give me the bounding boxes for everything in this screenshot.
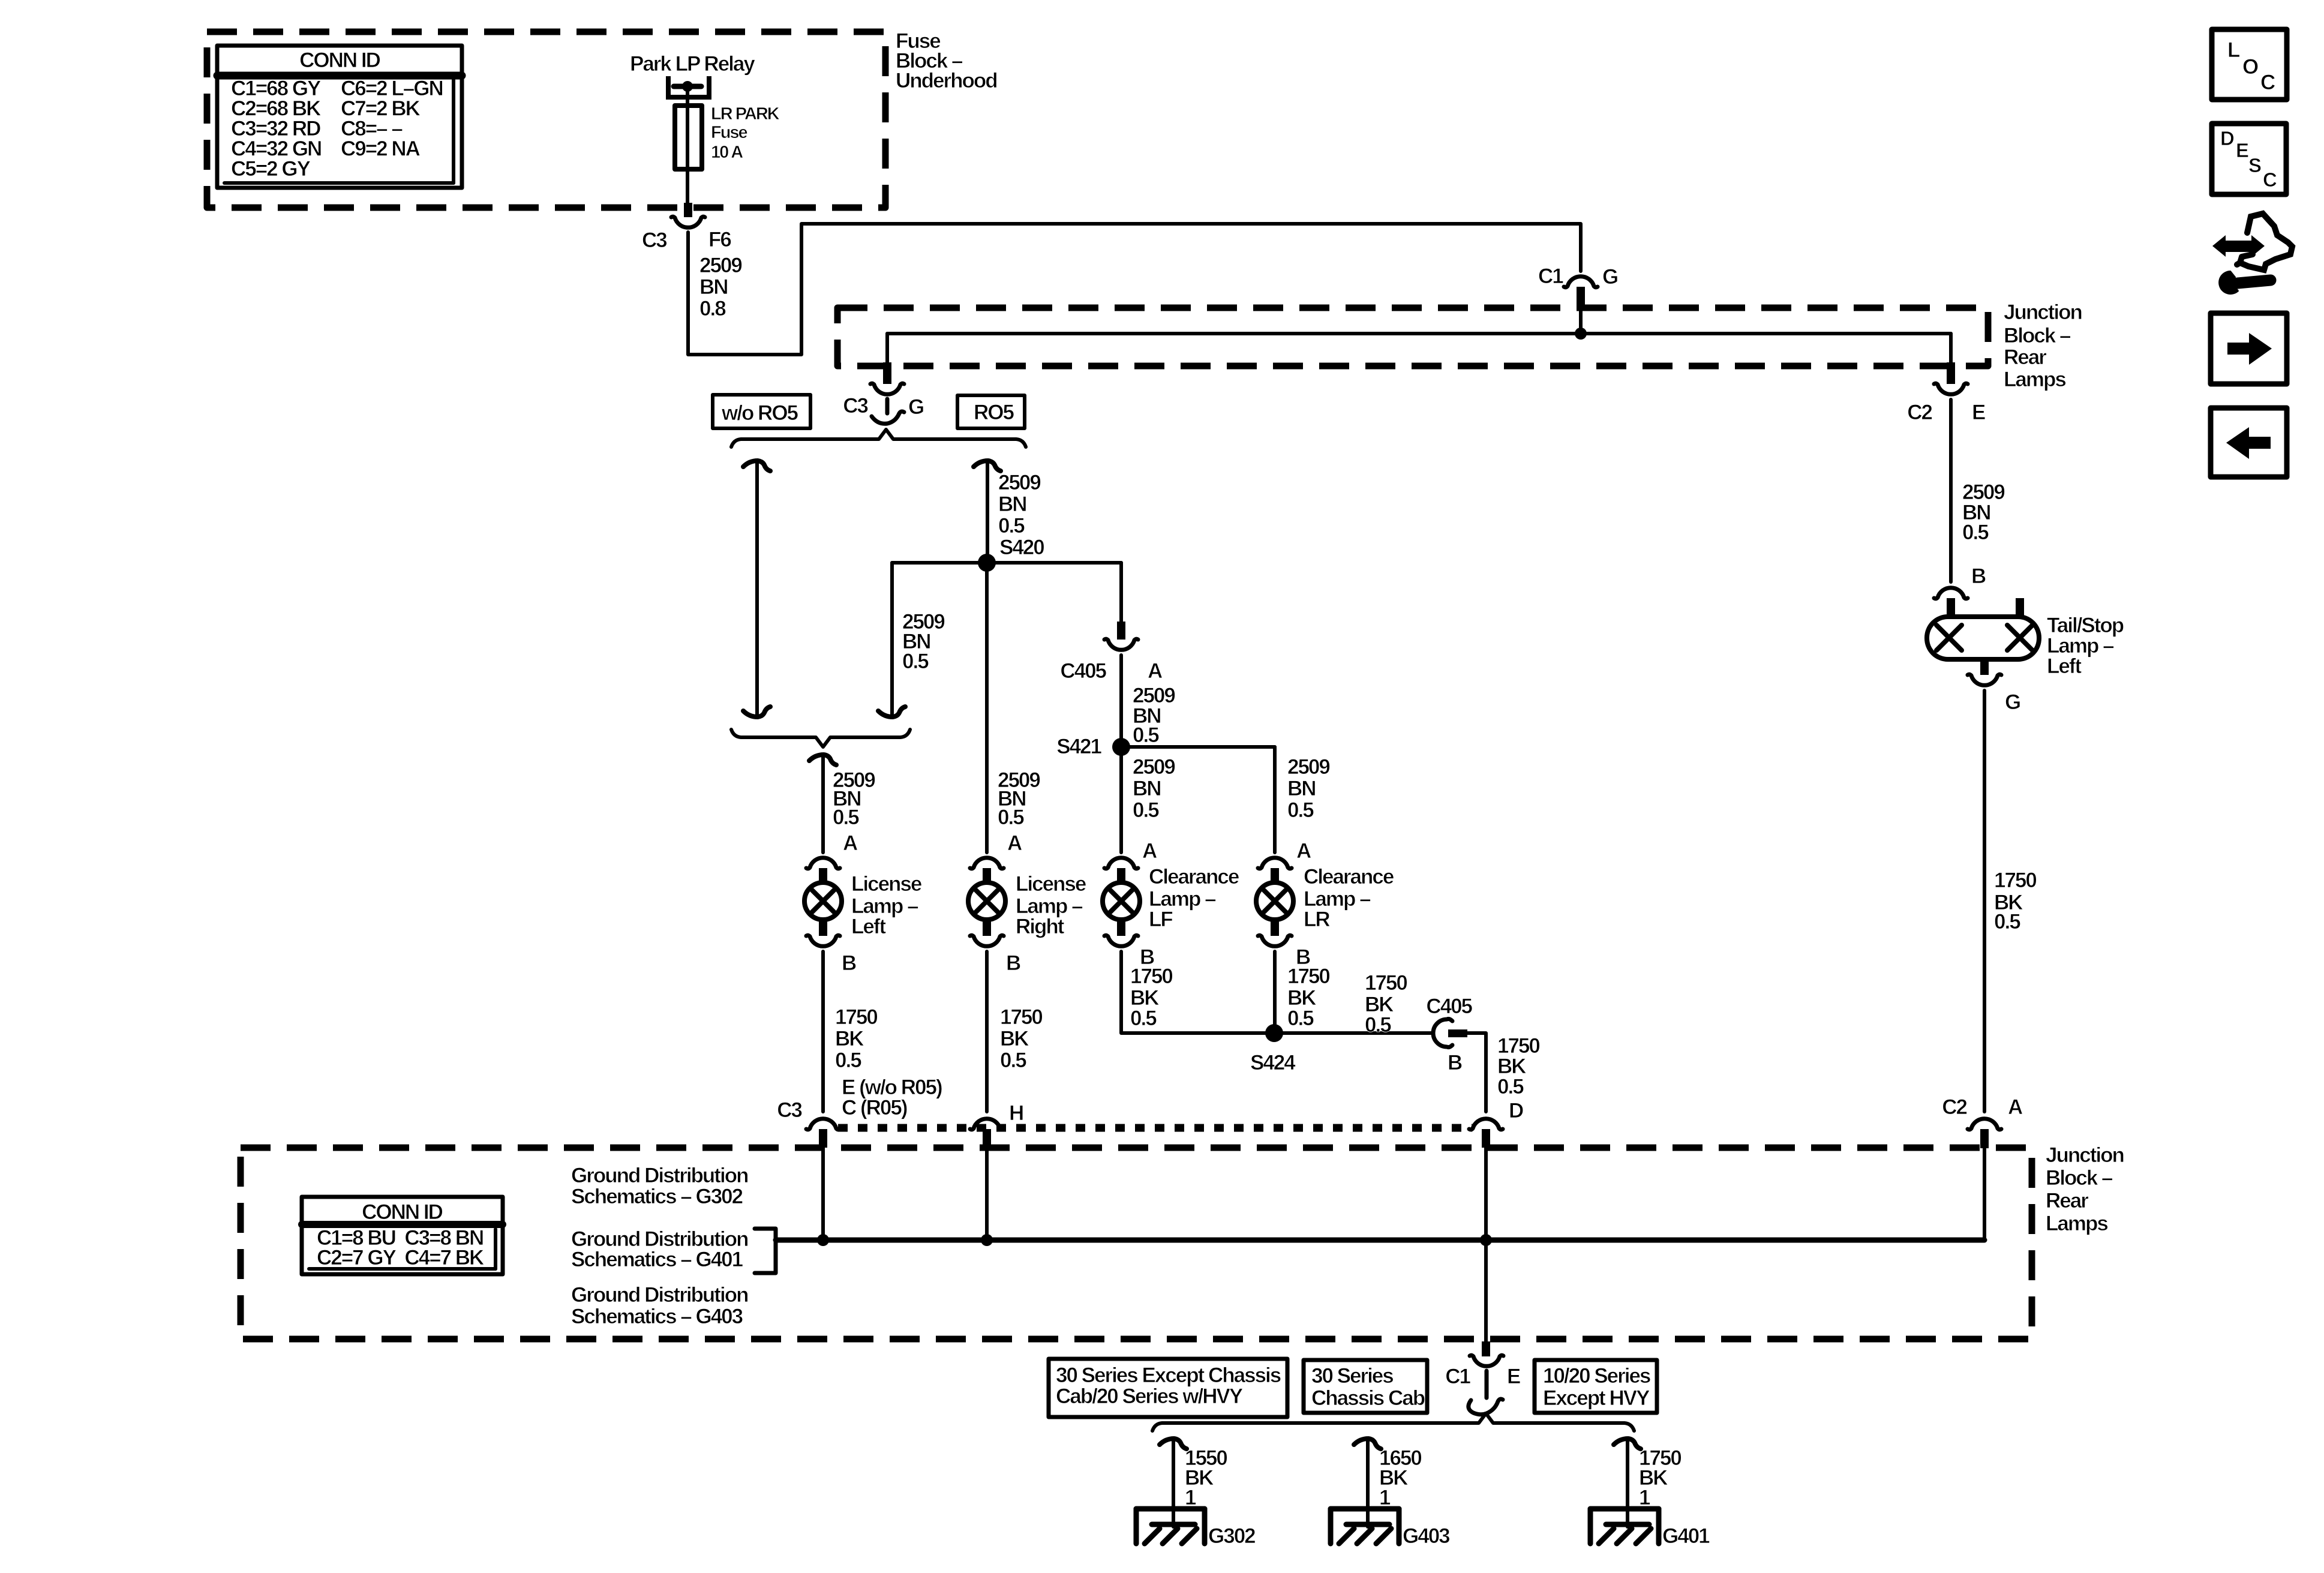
svg-text:D: D <box>1509 1099 1523 1122</box>
svg-text:C: C <box>2260 71 2275 94</box>
svg-text:0.5: 0.5 <box>1365 1013 1391 1037</box>
svg-text:H: H <box>1009 1101 1023 1125</box>
svg-text:C405: C405 <box>1426 995 1472 1018</box>
svg-text:A: A <box>2008 1095 2023 1119</box>
svg-text:0.5: 0.5 <box>1133 798 1159 822</box>
svg-text:G: G <box>908 395 924 419</box>
svg-text:Lamps: Lamps <box>2004 368 2066 391</box>
svg-text:BK: BK <box>1000 1027 1029 1050</box>
svg-text:CONN ID: CONN ID <box>299 49 380 72</box>
svg-text:0.5: 0.5 <box>902 650 929 673</box>
svg-text:LF: LF <box>1149 908 1173 931</box>
svg-text:2509: 2509 <box>1133 755 1175 779</box>
svg-text:C3: C3 <box>777 1098 802 1122</box>
svg-text:D: D <box>2220 127 2234 149</box>
svg-text:0.5: 0.5 <box>998 806 1024 829</box>
svg-text:0.5: 0.5 <box>1497 1075 1524 1098</box>
svg-text:License: License <box>851 872 922 896</box>
svg-text:1750: 1750 <box>835 1005 878 1029</box>
svg-text:Lamps: Lamps <box>2046 1212 2108 1235</box>
svg-text:10 A: 10 A <box>711 143 743 162</box>
svg-text:S424: S424 <box>1250 1051 1296 1074</box>
svg-text:O: O <box>2242 55 2258 79</box>
svg-text:0.5: 0.5 <box>1130 1007 1157 1030</box>
svg-text:L: L <box>2227 38 2240 62</box>
svg-text:B: B <box>1971 565 1986 588</box>
svg-text:Except HVY: Except HVY <box>1543 1386 1650 1410</box>
svg-text:C2=7 GY C4=7 BK: C2=7 GY C4=7 BK <box>317 1246 484 1269</box>
svg-text:S421: S421 <box>1056 735 1101 758</box>
svg-text:C3: C3 <box>642 229 667 252</box>
svg-text:1750: 1750 <box>1994 869 2037 892</box>
svg-text:1750: 1750 <box>1130 965 1173 988</box>
svg-text:Clearance: Clearance <box>1304 865 1394 888</box>
svg-text:0.5: 0.5 <box>1994 910 2020 933</box>
svg-text:Cab/20 Series w/HVY: Cab/20 Series w/HVY <box>1056 1385 1243 1408</box>
svg-text:Schematics – G302: Schematics – G302 <box>571 1185 743 1208</box>
svg-text:C1: C1 <box>1445 1365 1470 1388</box>
svg-text:Block –: Block – <box>2046 1166 2113 1190</box>
svg-text:BN: BN <box>1133 777 1161 800</box>
svg-text:C3: C3 <box>843 394 868 418</box>
svg-text:CONN ID: CONN ID <box>362 1200 443 1224</box>
svg-text:Junction: Junction <box>2046 1143 2124 1167</box>
svg-text:LR PARK: LR PARK <box>711 104 780 124</box>
svg-text:0.5: 0.5 <box>835 1049 861 1072</box>
svg-text:S420: S420 <box>999 536 1044 559</box>
svg-text:G401: G401 <box>1662 1524 1710 1548</box>
svg-text:Schematics – G403: Schematics – G403 <box>571 1305 743 1328</box>
svg-text:G403: G403 <box>1403 1524 1450 1548</box>
svg-text:Underhood: Underhood <box>896 69 997 92</box>
svg-text:0.5: 0.5 <box>998 514 1025 538</box>
svg-text:1: 1 <box>1185 1486 1196 1509</box>
svg-text:A: A <box>843 831 858 855</box>
svg-text:2509: 2509 <box>998 471 1041 494</box>
svg-text:Right: Right <box>1016 915 1065 938</box>
svg-text:0.5: 0.5 <box>1287 1007 1314 1030</box>
svg-text:10/20 Series: 10/20 Series <box>1543 1364 1651 1388</box>
svg-text:S: S <box>2248 154 2261 176</box>
svg-text:1: 1 <box>1639 1486 1650 1509</box>
svg-text:Fuse: Fuse <box>711 123 748 142</box>
svg-text:1750: 1750 <box>1000 1005 1043 1029</box>
svg-text:G: G <box>1602 265 1618 289</box>
svg-text:0.5: 0.5 <box>833 806 859 829</box>
svg-text:Ground Distribution: Ground Distribution <box>571 1164 748 1187</box>
svg-text:B: B <box>1006 951 1020 975</box>
svg-text:C2: C2 <box>1907 401 1932 424</box>
svg-text:A: A <box>1296 839 1311 863</box>
svg-text:A: A <box>1142 839 1157 863</box>
svg-text:RO5: RO5 <box>974 401 1014 424</box>
svg-text:A: A <box>1148 659 1163 683</box>
svg-text:F6: F6 <box>708 228 731 251</box>
svg-text:Chassis Cab: Chassis Cab <box>1311 1386 1425 1410</box>
svg-text:2509: 2509 <box>1287 755 1330 779</box>
svg-text:Left: Left <box>851 915 887 938</box>
svg-text:Ground Distribution: Ground Distribution <box>571 1283 748 1307</box>
svg-text:0.5: 0.5 <box>1287 798 1314 822</box>
svg-text:1: 1 <box>1379 1486 1391 1509</box>
svg-text:BN: BN <box>998 493 1026 516</box>
svg-text:C9=2 NA: C9=2 NA <box>341 137 421 161</box>
svg-text:BN: BN <box>1287 777 1316 800</box>
svg-text:2509: 2509 <box>699 254 742 277</box>
svg-text:LR: LR <box>1304 908 1330 931</box>
svg-text:B: B <box>1448 1051 1462 1074</box>
svg-text:0.8: 0.8 <box>699 297 726 320</box>
svg-text:1750: 1750 <box>1365 971 1407 995</box>
svg-text:Block –: Block – <box>2004 324 2071 347</box>
svg-text:0.5: 0.5 <box>1133 724 1159 747</box>
svg-text:C405: C405 <box>1060 659 1106 683</box>
svg-text:E: E <box>1507 1365 1520 1388</box>
svg-text:w/o RO5: w/o RO5 <box>721 401 798 425</box>
svg-text:0.5: 0.5 <box>1962 521 1989 544</box>
svg-text:Clearance: Clearance <box>1149 865 1239 888</box>
svg-text:G: G <box>2005 691 2020 714</box>
svg-text:30 Series: 30 Series <box>1311 1364 1394 1388</box>
svg-text:30 Series Except Chassis: 30 Series Except Chassis <box>1056 1364 1281 1387</box>
svg-text:E: E <box>2236 139 2248 161</box>
svg-text:C1: C1 <box>1538 265 1563 288</box>
svg-text:Schematics – G401: Schematics – G401 <box>571 1248 743 1271</box>
svg-text:G302: G302 <box>1208 1524 1256 1548</box>
svg-text:0.5: 0.5 <box>1000 1049 1026 1072</box>
svg-text:C2: C2 <box>1942 1095 1967 1119</box>
svg-text:License: License <box>1016 872 1086 896</box>
svg-text:E: E <box>1972 401 1985 424</box>
svg-text:A: A <box>1007 831 1022 855</box>
svg-text:Rear: Rear <box>2004 346 2047 369</box>
svg-text:Park LP Relay: Park LP Relay <box>630 52 755 76</box>
svg-text:Left: Left <box>2047 655 2082 678</box>
svg-text:Junction: Junction <box>2004 301 2082 324</box>
svg-text:C5=2 GY: C5=2 GY <box>231 157 311 181</box>
svg-text:C: C <box>2263 169 2277 191</box>
svg-text:BN: BN <box>699 275 728 299</box>
svg-text:1750: 1750 <box>1287 965 1330 988</box>
svg-text:B: B <box>842 951 856 975</box>
svg-text:BK: BK <box>835 1027 864 1050</box>
svg-text:Rear: Rear <box>2046 1189 2089 1212</box>
svg-text:C (R05): C (R05) <box>842 1096 907 1119</box>
